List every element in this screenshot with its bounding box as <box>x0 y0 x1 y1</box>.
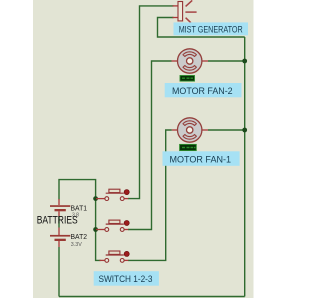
svg-text:SWITCH 1-2-3: SWITCH 1-2-3 <box>99 274 153 284</box>
wire net: switch1 to mist generator pin 1 <box>128 6 174 199</box>
battery BAT1 <box>50 199 70 217</box>
wire: right vertical bus <box>244 37 246 297</box>
wire: motor fan-1 right pin to bus <box>208 129 245 131</box>
junction dot switch bus row2 <box>93 227 98 232</box>
junction dot switch bus row1 <box>93 196 98 201</box>
motor fan-1 speed indicator <box>180 144 197 150</box>
wire: motor fan-2 right pin to bus <box>208 60 245 62</box>
svg-text:3.3V: 3.3V <box>71 242 82 248</box>
wire net: switch3 to motor fan-1 left pin <box>128 130 172 260</box>
switch SW3 <box>100 251 130 262</box>
wire: battery negative riser <box>58 247 60 297</box>
label MOTOR FAN-2 <box>165 83 242 97</box>
mist generator transducer LS1 <box>173 0 197 22</box>
motor fan-2 M2 <box>172 49 209 73</box>
svg-text:BATTRIES: BATTRIES <box>37 214 78 226</box>
svg-text:BAT2: BAT2 <box>71 232 88 241</box>
svg-text:BAT1: BAT1 <box>71 204 88 213</box>
wire: bottom bus <box>59 296 245 298</box>
switch SW1 <box>96 189 129 200</box>
wire net: mist generator pin 2 to right bus <box>158 18 245 38</box>
schematic sheet <box>33 0 254 298</box>
label SWITCH 1-2-3 <box>94 271 159 286</box>
label MIST GENERATOR <box>174 22 249 35</box>
label MOTOR FAN-1 <box>163 151 240 166</box>
battery BAT2 <box>50 228 70 248</box>
svg-text:MOTOR FAN-1: MOTOR FAN-1 <box>170 155 232 166</box>
wire: battery positive to switch bus <box>59 180 101 261</box>
motor fan-2 speed indicator <box>180 76 195 82</box>
svg-text:MOTOR FAN-2: MOTOR FAN-2 <box>172 86 233 97</box>
junction dot on bus at fan-1 <box>242 128 247 133</box>
motor fan-1 M1 <box>172 118 208 142</box>
wire: between batteries <box>58 217 60 228</box>
svg-text:MIST GENERATOR: MIST GENERATOR <box>179 24 243 34</box>
switch SW2 <box>96 220 129 231</box>
junction dot on bus at fan-2 <box>242 59 247 64</box>
wire net: switch2 to motor fan-2 left pin <box>128 61 172 230</box>
